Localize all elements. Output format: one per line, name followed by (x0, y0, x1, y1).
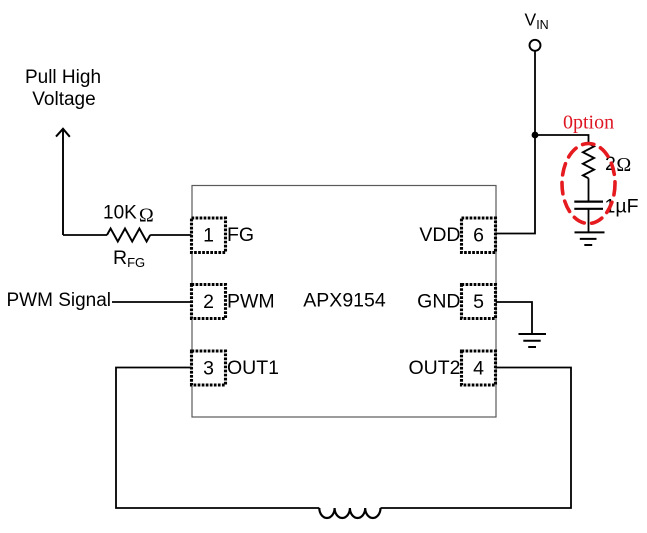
pin 1 box (192, 218, 226, 253)
VIN terminal circle (530, 40, 541, 51)
pin 6 box (462, 218, 496, 253)
svg-text:VDD: VDD (419, 224, 460, 246)
svg-text:APX9154: APX9154 (303, 290, 386, 312)
wire resistor to pin 1 (150, 234, 191, 236)
wire pin 5 to ground (496, 302, 532, 334)
svg-text:3: 3 (203, 358, 214, 380)
wire pin 3 OUT1 to bottom left (116, 368, 319, 509)
svg-text:RFG: RFG (113, 247, 145, 270)
wire resistor to capacitor (588, 178, 590, 201)
inductor coil (319, 508, 380, 518)
capacitor 1uF plates (574, 201, 603, 203)
svg-text:0ption: 0ption (563, 112, 614, 134)
resistor 2 ohm vertical zigzag (583, 144, 594, 179)
ground under capacitor (575, 231, 605, 233)
pin 3 box (192, 351, 226, 385)
svg-text:6: 6 (473, 225, 484, 247)
svg-text:GND: GND (417, 291, 460, 313)
wire capacitor to ground (588, 209, 590, 232)
resistor RFG zigzag (107, 229, 150, 242)
svg-text:10KΩ: 10KΩ (103, 203, 154, 227)
wire arrow corner to resistor RFG (63, 234, 107, 236)
svg-text:FG: FG (227, 224, 254, 246)
arrow up (pull-high) (62, 130, 64, 236)
pin 2 box (192, 285, 226, 319)
svg-text:5: 5 (473, 291, 484, 313)
pin 4 box (462, 351, 496, 385)
svg-text:2: 2 (203, 291, 214, 313)
ground at pin 5 (519, 333, 547, 335)
svg-text:Voltage: Voltage (32, 89, 95, 110)
svg-text:OUT1: OUT1 (227, 357, 279, 379)
option red dashed ellipse (562, 144, 615, 224)
wire junction to option branch (535, 135, 589, 144)
svg-text:PWM Signal: PWM Signal (7, 290, 112, 311)
IC U1 APX9154 body (192, 186, 496, 418)
wire PWM signal to pin 2 (112, 301, 192, 303)
wire VIN down to VDD (496, 51, 535, 234)
wire inductor to pin 4 OUT2 (381, 368, 572, 509)
svg-text:PWM: PWM (227, 291, 275, 313)
svg-text:OUT2: OUT2 (408, 357, 460, 379)
pin 5 box (462, 285, 496, 319)
junction dot VIN/option (532, 132, 539, 139)
svg-text:VIN: VIN (525, 10, 549, 33)
svg-text:1: 1 (203, 225, 214, 247)
svg-text:Pull High: Pull High (25, 67, 101, 88)
svg-text:4: 4 (473, 358, 484, 380)
